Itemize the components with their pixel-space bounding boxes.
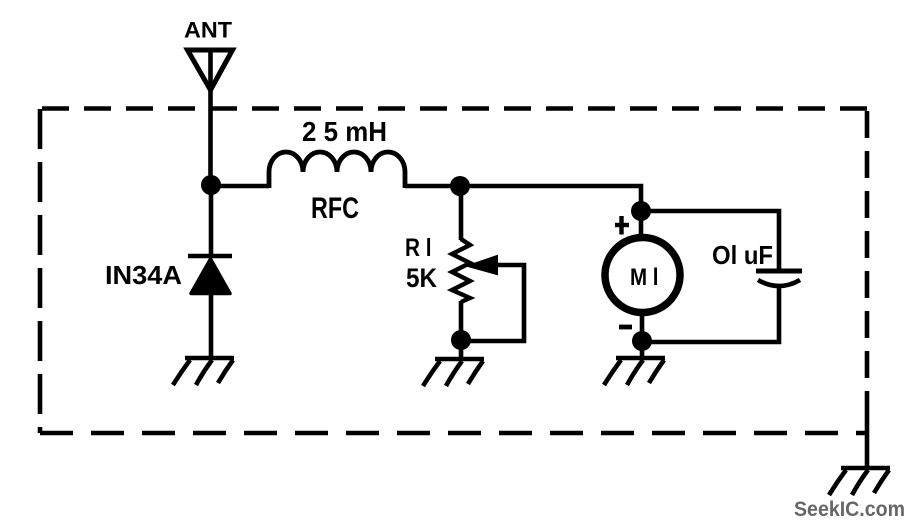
wire: node B down to potentiometer [459,186,464,240]
ground (under meter) [604,358,665,385]
label - polarity [619,325,632,330]
wire: node A to RFC left lead [211,184,269,189]
svg-text:IN34A: IN34A [105,260,182,290]
meter M1 body [605,238,680,313]
inductor RFC 2.5 mH [269,152,405,188]
node D junction dot [631,201,651,221]
wire: diode to ground [209,293,214,359]
wire: RFC right lead to node B [405,184,460,189]
potentiometer R1 wiper arrow [468,256,497,274]
wire: node D to capacitor top [641,211,779,270]
ground (under potentiometer) [423,359,484,386]
svg-text:5K: 5K [406,263,437,293]
svg-text:SeekIC.com: SeekIC.com [794,498,905,521]
capacitor C1 top plate [756,269,802,274]
wire: meter bottom to node E [640,316,645,341]
wire: node E to ground [640,341,645,359]
ground (under diode) [173,358,234,385]
wire: node C to ground [459,340,464,359]
dashed enclosure border right [865,111,870,400]
diode D1 cathode bar [188,254,232,258]
wire: potentiometer bottom to node C [459,301,464,341]
node E junction dot [632,331,652,351]
svg-text:2 5 mH: 2 5 mH [302,116,387,147]
svg-text:ANT: ANT [184,18,233,43]
node B junction dot [450,176,470,196]
svg-text:Ol uF: Ol uF [712,240,773,270]
antenna ANT [188,49,233,185]
dashed enclosure border top [38,106,867,111]
svg-text:M l: M l [630,264,659,291]
dashed enclosure border bottom [40,431,867,436]
potentiometer R1 5K body (zigzag) [452,239,470,302]
wire: node B to meter branch corner [460,186,641,211]
ground (bottom right, chassis) [829,468,890,495]
node C junction dot [451,330,471,350]
wire: enclosure to bottom-right ground [865,400,870,469]
dashed enclosure border left [38,109,43,433]
wire: node D to meter top [639,211,644,235]
node A junction dot [201,175,221,195]
label + polarity [615,216,629,235]
diode D1 1N34A vertical wire [209,185,214,256]
wire: capacitor bottom to node E [642,287,779,342]
diode D1 anode triangle [191,259,230,294]
capacitor C1 bottom plate (curved) [758,280,800,286]
svg-text:RFC: RFC [311,192,359,225]
wire: wiper to bottom node C [463,265,524,341]
svg-text:R l: R l [405,234,432,262]
